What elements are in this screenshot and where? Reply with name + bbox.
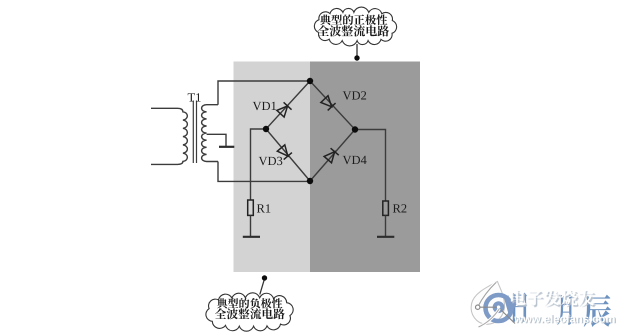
label VD4 [343, 156, 367, 164]
ground: center tap [219, 146, 234, 148]
watermark: blue ring [486, 295, 512, 321]
watermark: ring inner disc with hole [493, 301, 505, 313]
wire: left node to R1 [251, 129, 267, 200]
watermark: pad 1 [476, 305, 480, 309]
leader line: top callout [356, 44, 358, 56]
callout cloud: positive polarity note [314, 7, 396, 46]
wire: right node to R2 [355, 130, 386, 202]
ground: R1 [243, 236, 260, 238]
watermark: url face [514, 314, 614, 322]
resistor R2 [383, 201, 389, 215]
callout text: 全波整流电路 (bottom line 2) [215, 308, 285, 319]
node: bridge right junction [352, 126, 358, 132]
transformer T1 core [193, 101, 196, 164]
transformer T1 secondary winding [202, 105, 218, 162]
watermark: lower leaf edge halo [479, 309, 500, 328]
node: bridge top junction [307, 78, 313, 84]
callout text: 典型的负极性 (bottom line 1) [217, 298, 283, 308]
watermark: lower leaf edge curve [479, 309, 500, 328]
wire: secondary top terminal to bridge top node [218, 81, 310, 105]
shaded region: negative-polarity rectifier (light gray) [234, 62, 311, 273]
watermark: leaf stem halo [478, 283, 496, 307]
label R1 [257, 204, 270, 212]
shaded region: positive-polarity rectifier (dark gray) [310, 62, 420, 273]
resistor R1 [248, 200, 254, 215]
ground: R2 [377, 236, 394, 238]
wire: bridge diamond edges [266, 81, 355, 181]
diode VD2 [321, 95, 336, 110]
node: bridge left junction [263, 126, 269, 132]
watermark: blue V wedge [506, 296, 517, 310]
watermark: blue char 辰 [584, 295, 612, 327]
wire: secondary bottom terminal to bridge bottom node [218, 162, 310, 182]
leader line: bottom callout [260, 281, 264, 295]
wire: center tap lead [207, 134, 226, 146]
wire: R2 to ground [385, 215, 387, 236]
diode VD1 [277, 102, 292, 117]
watermark: text 电子发烧友 shadow [512, 291, 596, 307]
watermark: leaf shape [471, 282, 504, 325]
transformer T1 primary winding [151, 108, 187, 164]
wire: R1 to ground [250, 215, 252, 236]
leader dot: top callout [354, 55, 359, 60]
label R2 [393, 204, 407, 212]
watermark: blue char 日 [513, 292, 527, 322]
watermark: blue char 月 [557, 294, 572, 325]
label VD3 [259, 157, 283, 165]
callout cloud: negative polarity note [206, 293, 293, 331]
callout text: 典型的正极性 (top line 1) [320, 14, 387, 25]
node: bridge bottom junction [307, 178, 313, 184]
watermark: url shadow [515, 315, 615, 323]
diode VD3 [277, 145, 292, 160]
diode VD4 [324, 148, 339, 163]
label VD2 [343, 91, 366, 99]
label VD1 [253, 102, 276, 110]
watermark: leaf stem curve [478, 283, 496, 307]
watermark: text 电子发烧友 face [511, 289, 595, 305]
callout text: 全波整流电路 (top line 2) [318, 25, 390, 36]
label T1 [188, 93, 201, 101]
leader dot: bottom callout [262, 275, 267, 280]
watermark logo group [471, 282, 616, 328]
watermark: circuit trace [478, 307, 515, 323]
